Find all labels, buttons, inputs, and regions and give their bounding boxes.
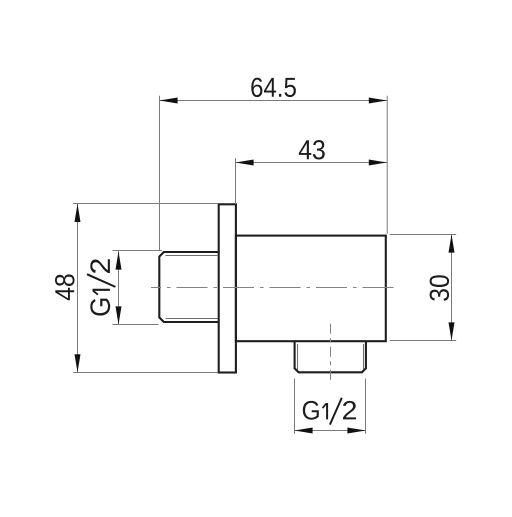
dim 64.5 arrow left — [160, 98, 178, 104]
left threaded stub G1/2 outline — [159, 252, 218, 322]
dim 64.5 extension line left — [159, 96, 161, 250]
dim G1/2 bottom arrow right — [347, 428, 365, 434]
bottom outlet stub outline — [295, 341, 366, 372]
dim G1/2 bottom label — [303, 397, 356, 425]
dim G1/2 left extension line bottom — [113, 324, 159, 326]
left stub thread root line bottom — [166, 318, 219, 320]
dim G1/2 bottom extension line left — [294, 379, 296, 434]
dim 48 arrow top — [75, 204, 81, 222]
bottom stub thread root line right — [363, 344, 365, 370]
dim G1/2 left label — [87, 259, 116, 315]
dim G1/2 bottom dimension line — [295, 430, 366, 432]
body — [236, 236, 386, 342]
vertical centerline of bottom stub — [330, 324, 332, 383]
dim G1/2 left extension line top — [113, 250, 163, 252]
dim 30 arrow bottom — [449, 322, 455, 340]
dim G1/2 bottom arrow left — [295, 428, 313, 434]
bottom stub thread root line left — [297, 344, 299, 370]
left stub thread root line top — [166, 255, 219, 257]
dim 30 dimension line — [451, 235, 453, 341]
dim 64.5 label — [251, 78, 296, 98]
dim 43 dimension line — [236, 162, 388, 164]
dim 48 arrow bottom — [75, 354, 81, 372]
dim 43 label — [299, 140, 325, 160]
dim 30 label — [430, 275, 450, 301]
dim 43 arrow right — [369, 160, 387, 166]
dim 30 arrow top — [449, 235, 455, 253]
dim 48 extension line bottom — [73, 372, 218, 374]
horizontal centerline — [151, 287, 394, 289]
dim 48 dimension line — [77, 204, 79, 373]
dim G1/2 left arrow top — [116, 252, 122, 270]
wall plate — [219, 204, 236, 372]
dim 48 extension line top — [73, 203, 218, 205]
dim 43 arrow left — [236, 160, 254, 166]
dim G1/2 left arrow bottom — [116, 306, 122, 324]
dim 64.5/43 extension line right — [386, 96, 388, 234]
dim 43 extension line left — [235, 158, 237, 204]
dim G1/2 bottom extension line right — [365, 379, 367, 434]
dim 48 label — [55, 274, 75, 300]
dim 30 extension line bottom — [390, 340, 456, 342]
dim 64.5 arrow right — [369, 98, 387, 104]
dim 64.5 dimension line — [160, 100, 388, 102]
dim G1/2 left dimension line — [118, 251, 120, 325]
dim 30 extension line top — [390, 234, 456, 236]
